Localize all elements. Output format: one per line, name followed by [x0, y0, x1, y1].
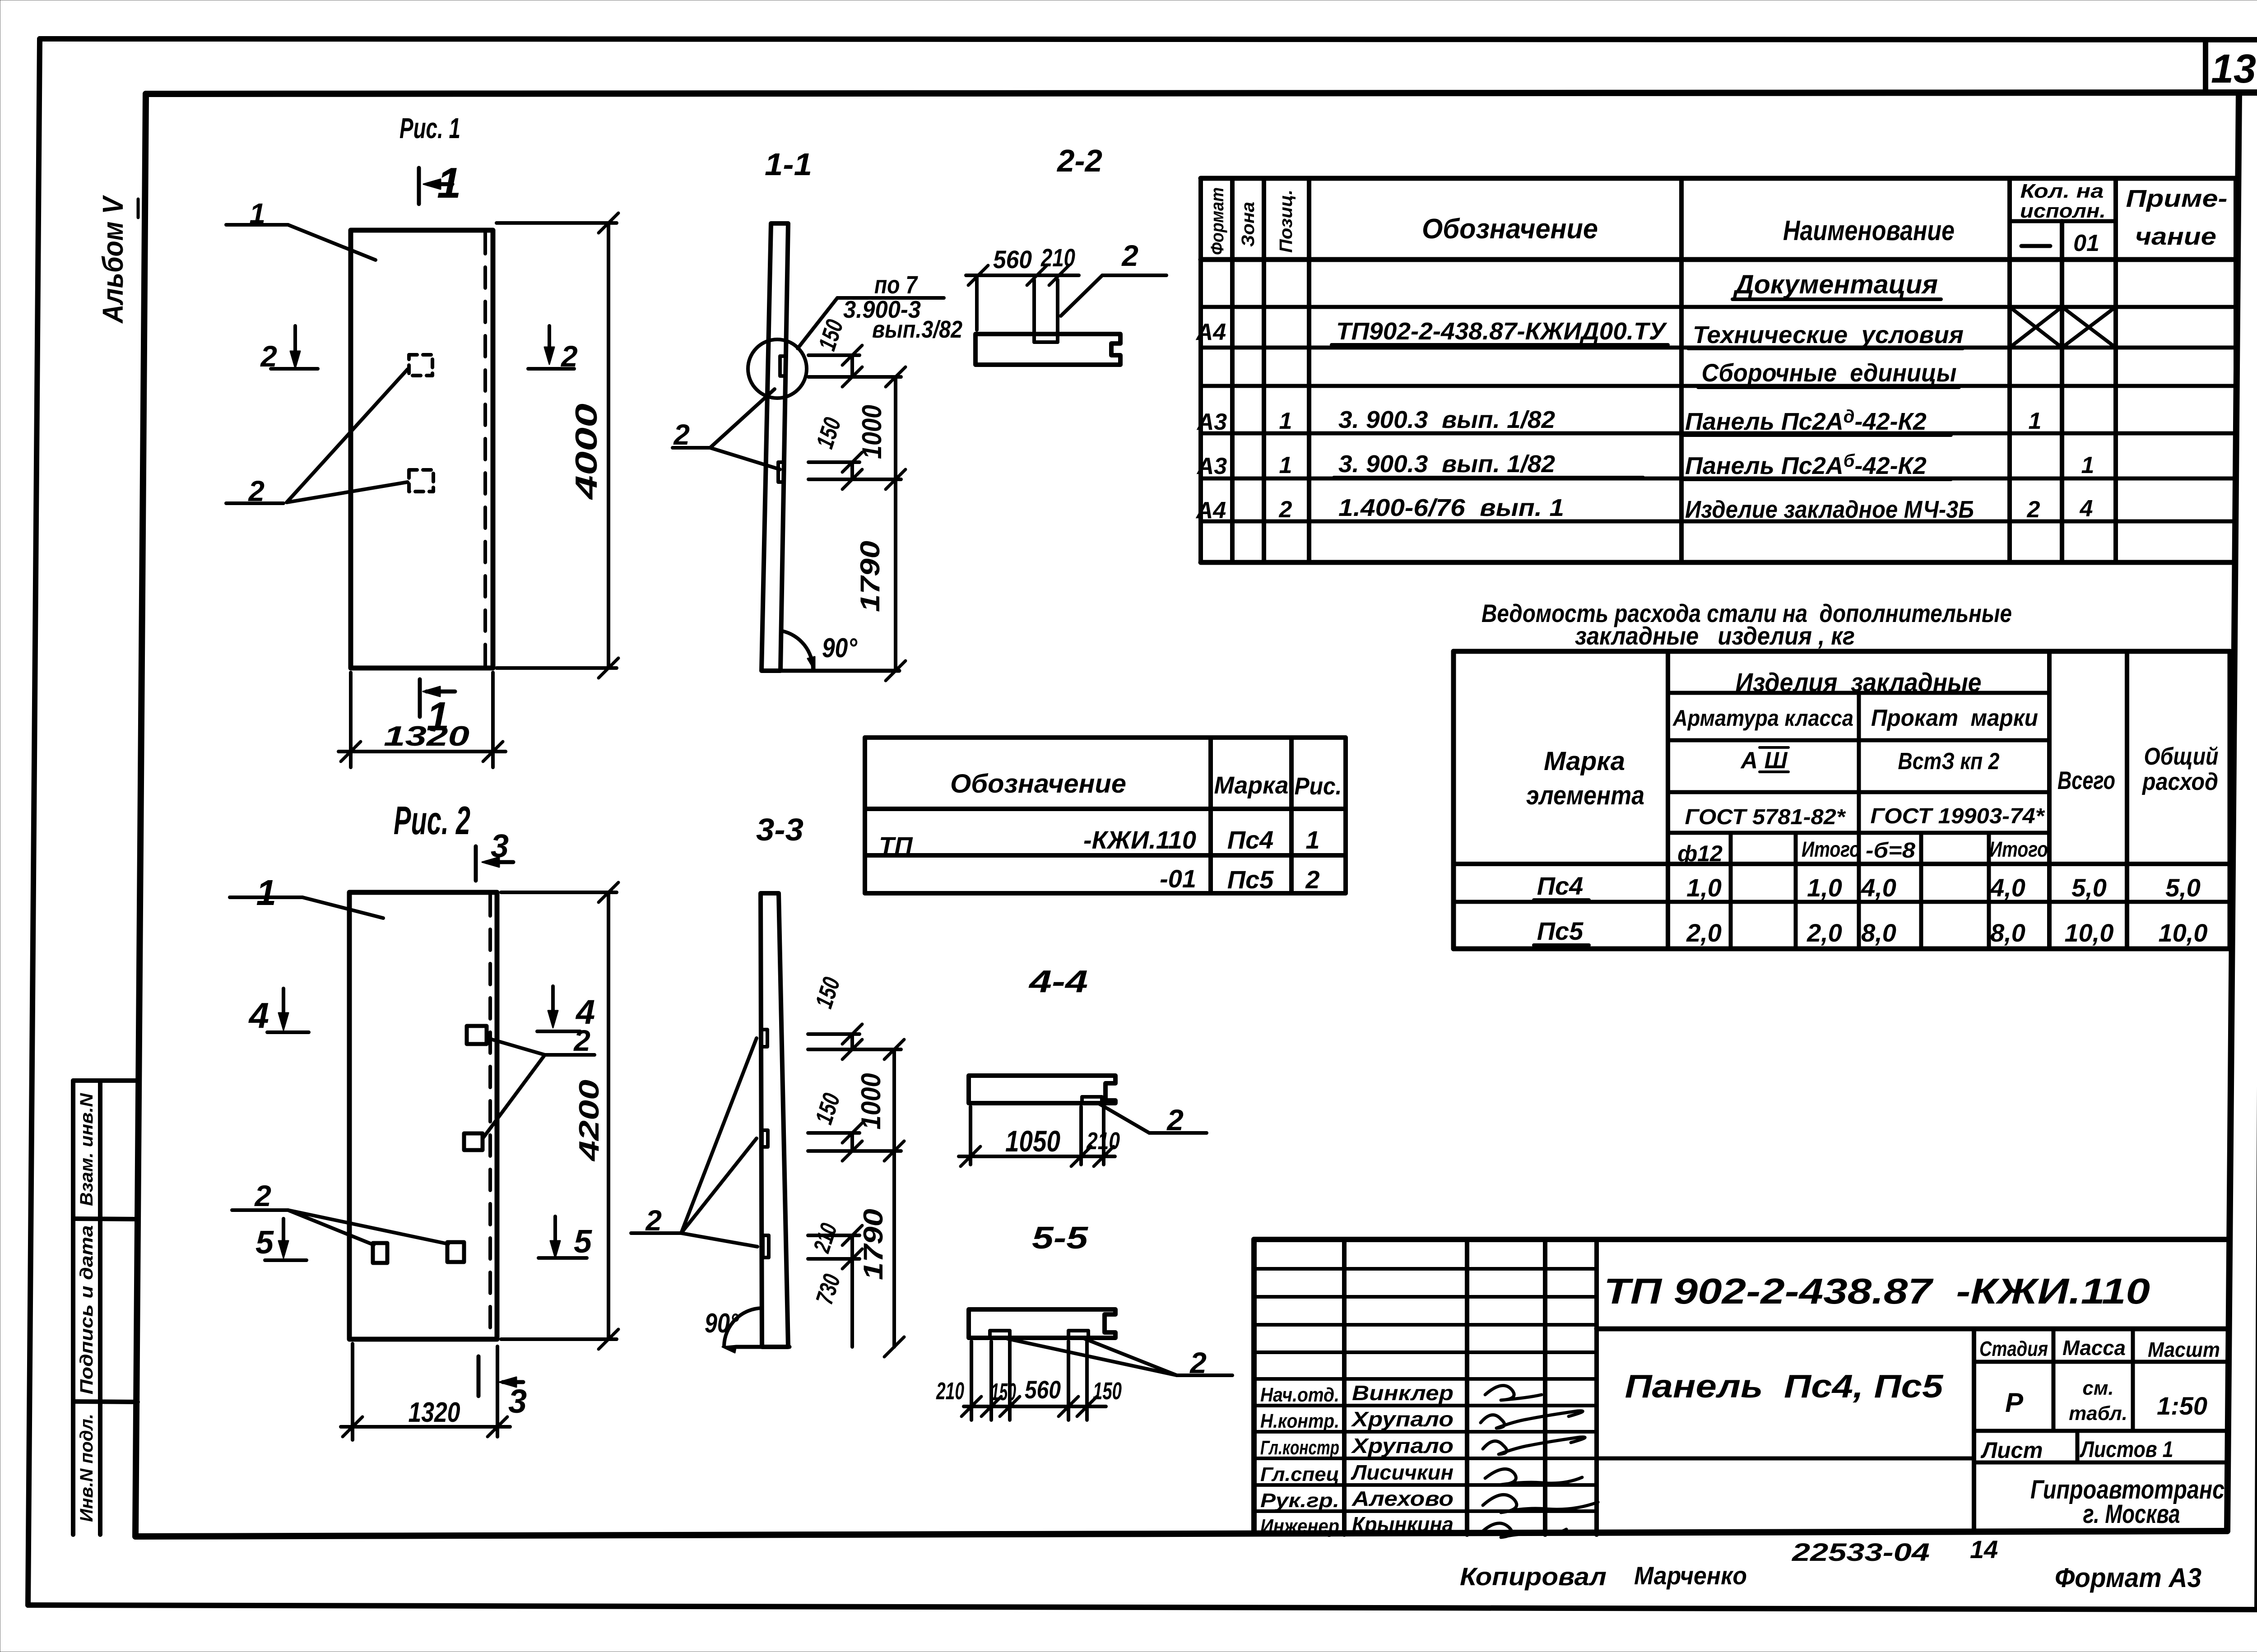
svg-text:210: 210	[1086, 1128, 1120, 1155]
svg-text:4,0: 4,0	[1861, 873, 1896, 902]
svg-text:Хрупало: Хрупало	[1351, 1407, 1454, 1431]
svg-text:Панель Пс2Ад-42-К2: Панель Пс2Ад-42-К2	[1685, 407, 1927, 435]
svg-text:ГОСТ 19903-74*: ГОСТ 19903-74*	[1871, 804, 2045, 828]
svg-text:Изделия закладные: Изделия закладные	[1736, 668, 1982, 697]
svg-text:4200: 4200	[574, 1080, 605, 1162]
svg-text:150: 150	[991, 1378, 1016, 1406]
svg-text:1050: 1050	[1005, 1124, 1060, 1158]
svg-text:исполн.: исполн.	[2020, 200, 2106, 222]
svg-text:10,0: 10,0	[2065, 919, 2114, 947]
svg-text:Всего: Всего	[2057, 766, 2115, 794]
svg-text:1790: 1790	[858, 1209, 888, 1280]
svg-text:Документация: Документация	[1732, 270, 1938, 299]
svg-text:5,0: 5,0	[2071, 873, 2107, 902]
svg-text:1000: 1000	[856, 1073, 886, 1130]
svg-text:Копировал: Копировал	[1460, 1562, 1607, 1591]
svg-text:Обозначение: Обозначение	[950, 769, 1126, 798]
svg-text:3: 3	[508, 1383, 527, 1420]
svg-text:А Ш: А Ш	[1740, 747, 1788, 774]
svg-text:Приме-: Приме-	[2126, 185, 2228, 212]
svg-text:1: 1	[437, 159, 461, 207]
svg-text:1: 1	[1305, 826, 1319, 854]
svg-text:2: 2	[1166, 1103, 1184, 1137]
svg-text:Инженер: Инженер	[1260, 1515, 1339, 1537]
svg-text:1: 1	[427, 694, 449, 739]
svg-text:Формат: Формат	[1207, 187, 1227, 255]
svg-text:Рис.: Рис.	[1295, 773, 1342, 800]
svg-text:ТП 902-2-438.87 -КЖИ.110: ТП 902-2-438.87 -КЖИ.110	[1604, 1271, 2150, 1311]
svg-text:Альбом V: Альбом V	[97, 195, 129, 324]
svg-text:А3: А3	[1196, 453, 1227, 479]
svg-text:-КЖИ.110: -КЖИ.110	[1083, 826, 1196, 854]
svg-text:2-2: 2-2	[1056, 143, 1102, 178]
svg-text:3. 900.3 вып. 1/82: 3. 900.3 вып. 1/82	[1338, 450, 1555, 478]
svg-text:4,0: 4,0	[1990, 873, 2025, 902]
svg-text:ф12: ф12	[1677, 841, 1723, 866]
svg-text:1: 1	[1279, 452, 1292, 478]
svg-text:Пс4: Пс4	[1227, 826, 1274, 854]
svg-text:210: 210	[936, 1378, 964, 1405]
svg-text:2: 2	[1189, 1346, 1207, 1379]
svg-text:5-5: 5-5	[1032, 1220, 1088, 1255]
svg-text:2: 2	[1305, 865, 1319, 894]
svg-text:Арматура класса: Арматура класса	[1672, 705, 1853, 731]
svg-text:Позиц.: Позиц.	[1276, 190, 1296, 253]
svg-text:2,0: 2,0	[1807, 919, 1842, 947]
svg-text:Р: Р	[2005, 1387, 2024, 1418]
svg-text:1: 1	[2081, 452, 2094, 478]
svg-text:Лисичкин: Лисичкин	[1351, 1461, 1454, 1484]
svg-text:2: 2	[573, 1024, 590, 1057]
svg-text:см.: см.	[2082, 1377, 2113, 1399]
svg-text:Листов 1: Листов 1	[2080, 1437, 2173, 1462]
svg-text:Марченко: Марченко	[1634, 1561, 1747, 1590]
svg-text:1-1: 1-1	[765, 147, 812, 182]
svg-text:3-3: 3-3	[756, 812, 803, 847]
svg-text:Марка: Марка	[1544, 747, 1625, 776]
svg-text:2: 2	[2027, 497, 2040, 523]
svg-text:5: 5	[255, 1225, 274, 1261]
svg-text:Пс5: Пс5	[1227, 865, 1274, 894]
svg-text:3: 3	[491, 828, 509, 864]
svg-text:А3: А3	[1196, 409, 1227, 435]
svg-text:10,0: 10,0	[2159, 919, 2208, 947]
svg-text:Масса: Масса	[2062, 1336, 2126, 1360]
svg-text:Марка: Марка	[1214, 772, 1289, 799]
svg-text:Гл.спец: Гл.спец	[1260, 1463, 1339, 1485]
svg-text:1: 1	[1279, 408, 1292, 434]
svg-text:2: 2	[254, 1179, 271, 1212]
svg-text:Хрупало: Хрупало	[1351, 1434, 1454, 1457]
svg-text:чание: чание	[2135, 223, 2216, 250]
svg-text:2: 2	[1279, 497, 1292, 523]
svg-text:2: 2	[1121, 239, 1138, 272]
svg-text:-01: -01	[1160, 864, 1196, 893]
svg-text:2,0: 2,0	[1686, 919, 1722, 947]
svg-text:3. 900.3 вып. 1/82: 3. 900.3 вып. 1/82	[1338, 406, 1555, 433]
svg-text:Обозначение: Обозначение	[1422, 213, 1598, 245]
svg-text:1320: 1320	[409, 1397, 460, 1428]
svg-text:закладные изделия , кг: закладные изделия , кг	[1575, 622, 1855, 650]
svg-text:Панель Пс2Аб-42-К2: Панель Пс2Аб-42-К2	[1685, 451, 1927, 479]
svg-text:4000: 4000	[569, 404, 604, 501]
svg-text:1.400-6/76 вып. 1: 1.400-6/76 вып. 1	[1338, 494, 1564, 521]
svg-text:Сборочные единицы: Сборочные единицы	[1702, 358, 1957, 387]
svg-text:Изделие закладное МЧ-3Б: Изделие закладное МЧ-3Б	[1685, 496, 1974, 523]
svg-text:Панель Пс4, Пс5: Панель Пс4, Пс5	[1625, 1369, 1944, 1405]
svg-text:14: 14	[1970, 1535, 1998, 1564]
svg-text:5: 5	[574, 1224, 592, 1260]
svg-text:1000: 1000	[857, 405, 887, 459]
svg-text:Крынкина: Крынкина	[1352, 1513, 1454, 1536]
svg-text:Итого: Итого	[1802, 838, 1860, 862]
svg-text:8,0: 8,0	[1990, 919, 2025, 947]
svg-text:1790: 1790	[855, 541, 885, 612]
svg-text:90°: 90°	[822, 633, 858, 663]
svg-text:1,0: 1,0	[1686, 873, 1722, 902]
svg-text:Формат А3: Формат А3	[2055, 1563, 2201, 1593]
svg-text:Подпись и дата: Подпись и дата	[77, 1225, 97, 1395]
svg-text:1: 1	[256, 872, 277, 913]
svg-text:Лист: Лист	[1981, 1438, 2043, 1463]
svg-text:элемента: элемента	[1526, 781, 1644, 810]
svg-text:Итого: Итого	[1989, 838, 2048, 862]
svg-text:560: 560	[1025, 1375, 1061, 1404]
svg-text:расход: расход	[2141, 768, 2218, 795]
svg-text:210: 210	[1040, 243, 1075, 272]
svg-text:150: 150	[1093, 1378, 1122, 1405]
svg-text:вып.3/82: вып.3/82	[872, 316, 962, 343]
svg-text:ТП902-2-438.87-КЖИД00.ТУ: ТП902-2-438.87-КЖИД00.ТУ	[1336, 318, 1667, 345]
svg-text:Наименование: Наименование	[1783, 215, 1955, 246]
svg-text:1:50: 1:50	[2157, 1392, 2207, 1420]
svg-text:1,0: 1,0	[1807, 873, 1842, 902]
svg-text:4: 4	[2080, 496, 2093, 522]
svg-text:13: 13	[2211, 46, 2256, 92]
svg-text:Рис. 2: Рис. 2	[394, 798, 470, 843]
svg-text:ТП: ТП	[879, 831, 913, 860]
svg-text:1: 1	[2029, 408, 2042, 434]
svg-text:ВстЗ кп 2: ВстЗ кп 2	[1898, 748, 2000, 775]
svg-text:Взам. инв.N: Взам. инв.N	[77, 1093, 97, 1206]
svg-text:А4: А4	[1195, 319, 1226, 345]
svg-text:Гл.констр: Гл.констр	[1260, 1437, 1339, 1459]
svg-text:Зона: Зона	[1238, 202, 1258, 247]
svg-text:Нач.отд.: Нач.отд.	[1260, 1384, 1339, 1406]
svg-text:г. Москва: г. Москва	[2083, 1499, 2180, 1529]
svg-text:Инв.N подл.: Инв.N подл.	[77, 1414, 97, 1522]
svg-text:Кол. на: Кол. на	[2020, 180, 2104, 202]
svg-text:А4: А4	[1195, 497, 1226, 524]
svg-text:22533-04: 22533-04	[1792, 1538, 1930, 1566]
svg-text:ГОСТ 5781-82*: ГОСТ 5781-82*	[1685, 805, 1846, 829]
svg-text:01: 01	[2073, 230, 2099, 256]
svg-text:Винклер: Винклер	[1352, 1381, 1454, 1405]
svg-text:5,0: 5,0	[2165, 873, 2201, 902]
svg-text:4: 4	[248, 995, 269, 1035]
svg-text:Рук.гр.: Рук.гр.	[1260, 1490, 1339, 1512]
svg-text:560: 560	[993, 245, 1032, 274]
svg-text:Рис. 1: Рис. 1	[399, 112, 460, 144]
svg-text:Алехово: Алехово	[1351, 1487, 1454, 1510]
svg-text:Масшт: Масшт	[2148, 1338, 2220, 1361]
svg-text:4-4: 4-4	[1028, 964, 1088, 999]
svg-text:-б=8: -б=8	[1866, 839, 1915, 863]
svg-text:8,0: 8,0	[1861, 919, 1896, 947]
svg-text:табл.: табл.	[2069, 1402, 2127, 1425]
svg-text:Пс5: Пс5	[1537, 917, 1584, 945]
svg-text:Пс4: Пс4	[1537, 872, 1584, 900]
svg-text:Прокат марки: Прокат марки	[1871, 705, 2038, 731]
svg-text:Технические условия: Технические условия	[1693, 321, 1964, 348]
svg-text:Общий: Общий	[2144, 743, 2219, 770]
svg-text:Н.контр.: Н.контр.	[1260, 1410, 1339, 1432]
svg-text:по 7: по 7	[874, 270, 918, 299]
svg-text:Стадия: Стадия	[1979, 1337, 2048, 1360]
